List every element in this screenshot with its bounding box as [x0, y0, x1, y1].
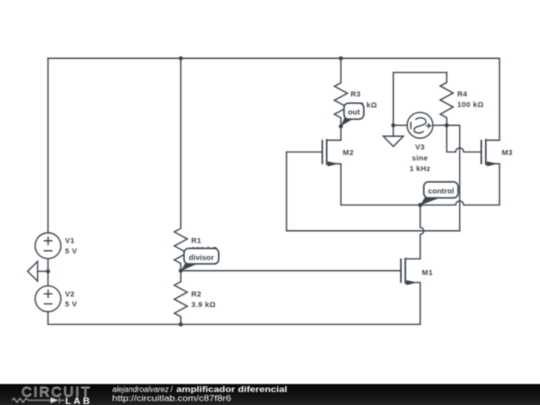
svg-text:1 kHz: 1 kHz	[409, 164, 430, 173]
svg-text:out: out	[348, 108, 360, 117]
svg-text:LAB: LAB	[65, 396, 92, 405]
svg-text:R2: R2	[191, 290, 201, 299]
svg-text:control: control	[428, 186, 454, 195]
svg-text:R1: R1	[191, 236, 201, 245]
svg-text:5 V: 5 V	[65, 247, 77, 256]
svg-text:R4: R4	[457, 90, 468, 99]
svg-text:3.9 kΩ: 3.9 kΩ	[191, 300, 216, 309]
svg-text:alejandroalvarez: alejandroalvarez	[112, 385, 169, 394]
svg-text:M1: M1	[422, 268, 433, 277]
svg-text:V1: V1	[65, 236, 75, 245]
svg-text:M3: M3	[502, 148, 513, 157]
svg-text:divisor: divisor	[189, 253, 214, 262]
svg-text:5 V: 5 V	[65, 300, 77, 309]
svg-text:sine: sine	[412, 153, 428, 162]
svg-text:M2: M2	[343, 148, 354, 157]
svg-text:V2: V2	[65, 289, 75, 298]
svg-text:100 kΩ: 100 kΩ	[457, 100, 484, 109]
svg-text:V3: V3	[415, 143, 425, 152]
svg-text:R3: R3	[351, 90, 361, 99]
svg-text:amplificador diferencial: amplificador diferencial	[176, 385, 287, 394]
svg-text:http://circuitlab.com/c87f8r6: http://circuitlab.com/c87f8r6	[112, 394, 232, 403]
